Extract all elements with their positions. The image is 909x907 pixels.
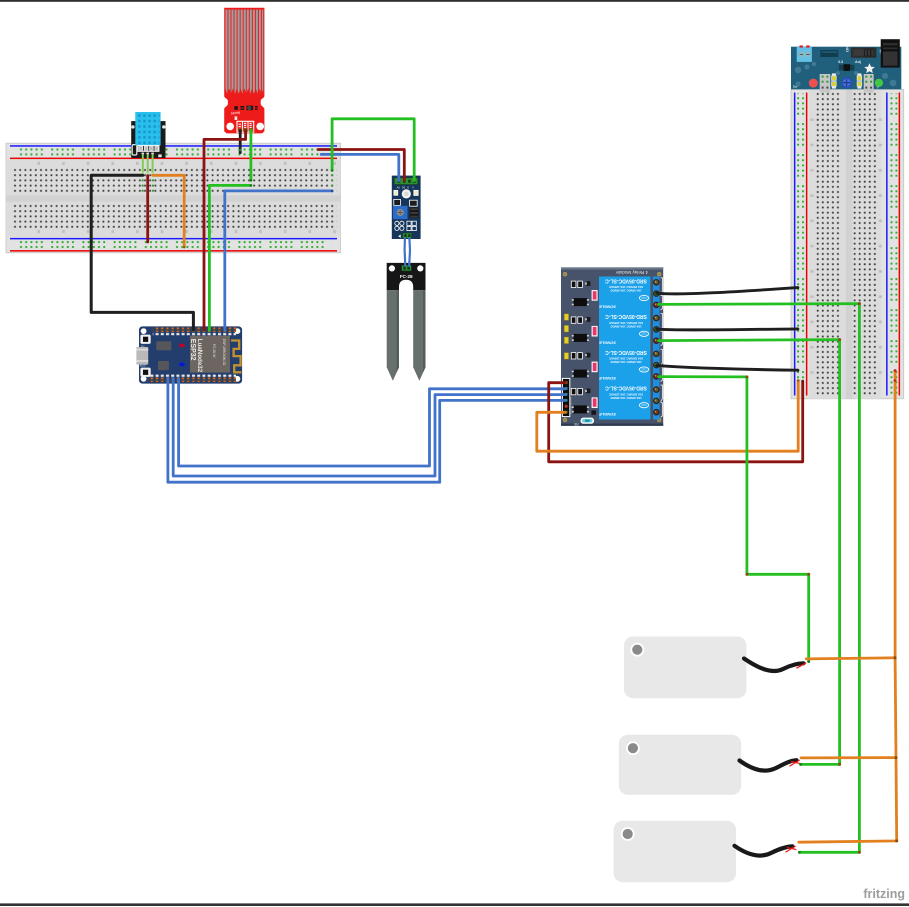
page bottom border — [0, 903, 909, 906]
wire blue ESP32-relay IN3 — [168, 379, 565, 483]
svg-text:10A 250VAC 10A 125VAC: 10A 250VAC 10A 125VAC — [608, 357, 643, 361]
svg-text:SONGLE: SONGLE — [599, 412, 616, 417]
wire orange branch pump1 — [806, 658, 895, 659]
pump M2 — [619, 735, 800, 795]
svg-text:SONGLE: SONGLE — [599, 340, 616, 345]
svg-text:10A 30VDC 10A 28VDC: 10A 30VDC 10A 28VDC — [609, 324, 641, 328]
wire black relay2 COM — [657, 329, 798, 330]
svg-text:10A 30VDC 10A 28VDC: 10A 30VDC 10A 28VDC — [609, 289, 641, 293]
svg-text:10A 250VAC 10A 125VAC: 10A 250VAC 10A 125VAC — [608, 392, 643, 396]
wire orange DHT11 data — [153, 175, 184, 247]
svg-text:3.3: 3.3 — [838, 60, 843, 64]
svg-text:ESP-WROOM-32: ESP-WROOM-32 — [222, 339, 226, 366]
soil moisture probe FC-28 — [387, 263, 426, 381]
wire black relay3 COM — [657, 365, 798, 370]
wire green relay3 NO to pump1 — [659, 377, 809, 662]
svg-text:ON: ON — [844, 46, 849, 52]
svg-text:LuaNode32: LuaNode32 — [196, 339, 203, 373]
wire orange branch pump2 — [801, 756, 896, 759]
svg-text:FC-28: FC-28 — [400, 274, 413, 279]
wire green ESP32 to BB1 — [209, 185, 251, 330]
wire darkred relay VCC to BB2 — [549, 381, 803, 462]
svg-text:V: V — [412, 185, 414, 189]
wire green relay1 NO to pump3 — [659, 304, 860, 853]
wire blue BB1 rail to soil module — [321, 154, 399, 180]
pump M3 — [614, 821, 797, 883]
4-channel relay module K1 — [561, 267, 663, 426]
power supply module MB102 — [791, 39, 901, 92]
svg-text:CQC: CQC — [641, 367, 647, 371]
wire darkred BB1 rail to soil module — [318, 150, 404, 181]
wire blue soil module to probe A — [404, 238, 407, 266]
NodeMCU ESP32 board U1 — [136, 326, 242, 383]
svg-text:10A 250VAC 10A 125VAC: 10A 250VAC 10A 125VAC — [608, 285, 643, 289]
svg-text:CQC: CQC — [641, 403, 647, 407]
wire black relay1 COM — [657, 288, 798, 294]
svg-text:CQC: CQC — [641, 296, 647, 300]
svg-text:CQC: CQC — [641, 332, 647, 336]
svg-text:SONGLE: SONGLE — [599, 376, 616, 381]
breadboard BB2 (vertical, right) — [791, 89, 904, 399]
svg-text:10A 30VDC 10A 28VDC: 10A 30VDC 10A 28VDC — [609, 360, 641, 364]
svg-text:FC-ID-W: FC-ID-W — [212, 344, 216, 358]
wire blue ESP32-relay IN1 — [179, 379, 565, 467]
page top border — [0, 0, 909, 2]
svg-text:BOOT: BOOT — [140, 365, 147, 368]
svg-text:Adj: Adj — [855, 60, 861, 64]
wire darkred water sensor to ESP32 — [204, 131, 246, 331]
svg-text:4 Relay Module: 4 Relay Module — [616, 270, 648, 275]
wire green water sensor signal — [249, 131, 252, 181]
wire orange BB2 rail down to pumps — [799, 371, 897, 843]
svg-text:SRD-05VDC-SL-C: SRD-05VDC-SL-C — [605, 349, 647, 355]
svg-text:SRD-05VDC-SL-C: SRD-05VDC-SL-C — [605, 313, 647, 319]
water level sensor W1 — [224, 8, 264, 134]
wire black water sensor pin1 — [239, 131, 242, 153]
svg-text:10A 250VAC 10A 125VAC: 10A 250VAC 10A 125VAC — [608, 321, 643, 325]
svg-text:Re: Re — [793, 85, 797, 89]
wire darkred DHT11 VCC to rail — [146, 176, 149, 242]
svg-text:R8: R8 — [574, 422, 578, 426]
svg-text:IN1 IN2 IN3 IN4: IN1 IN2 IN3 IN4 — [570, 396, 573, 414]
breadboard BB1 (horizontal, top-left) — [6, 143, 341, 253]
svg-text:A0: A0 — [397, 185, 401, 189]
wire green relay2 NO to pump2 — [659, 340, 840, 765]
wire orange relay GND to BB2 — [537, 381, 798, 452]
svg-text:ESP32: ESP32 — [189, 339, 196, 361]
wire blue ESP32-relay IN2 — [173, 379, 565, 477]
wire blue ESP32 to BB1 — [225, 191, 332, 330]
svg-text:10A 30VDC 10A 28VDC: 10A 30VDC 10A 28VDC — [609, 396, 641, 400]
svg-text:G: G — [407, 185, 409, 189]
svg-text:fritzing: fritzing — [863, 887, 905, 901]
svg-text:SONGLE: SONGLE — [599, 305, 616, 310]
pump M1 — [624, 637, 806, 699]
wire black DHT11-ESP32 GND — [91, 175, 193, 330]
wire blue soil module to probe B — [408, 238, 411, 266]
DHT11 sensor U2 — [131, 112, 165, 175]
svg-text:D0: D0 — [402, 185, 406, 189]
wire green BB1 to soil module VCC — [332, 119, 414, 181]
connected-hole highlights — [142, 174, 334, 192]
svg-text:SRD-05VDC-SL-C: SRD-05VDC-SL-C — [605, 277, 647, 283]
soil moisture comparator module FC-28 board — [392, 176, 421, 239]
svg-text:SRD-05VDC-SL-C: SRD-05VDC-SL-C — [605, 385, 647, 391]
